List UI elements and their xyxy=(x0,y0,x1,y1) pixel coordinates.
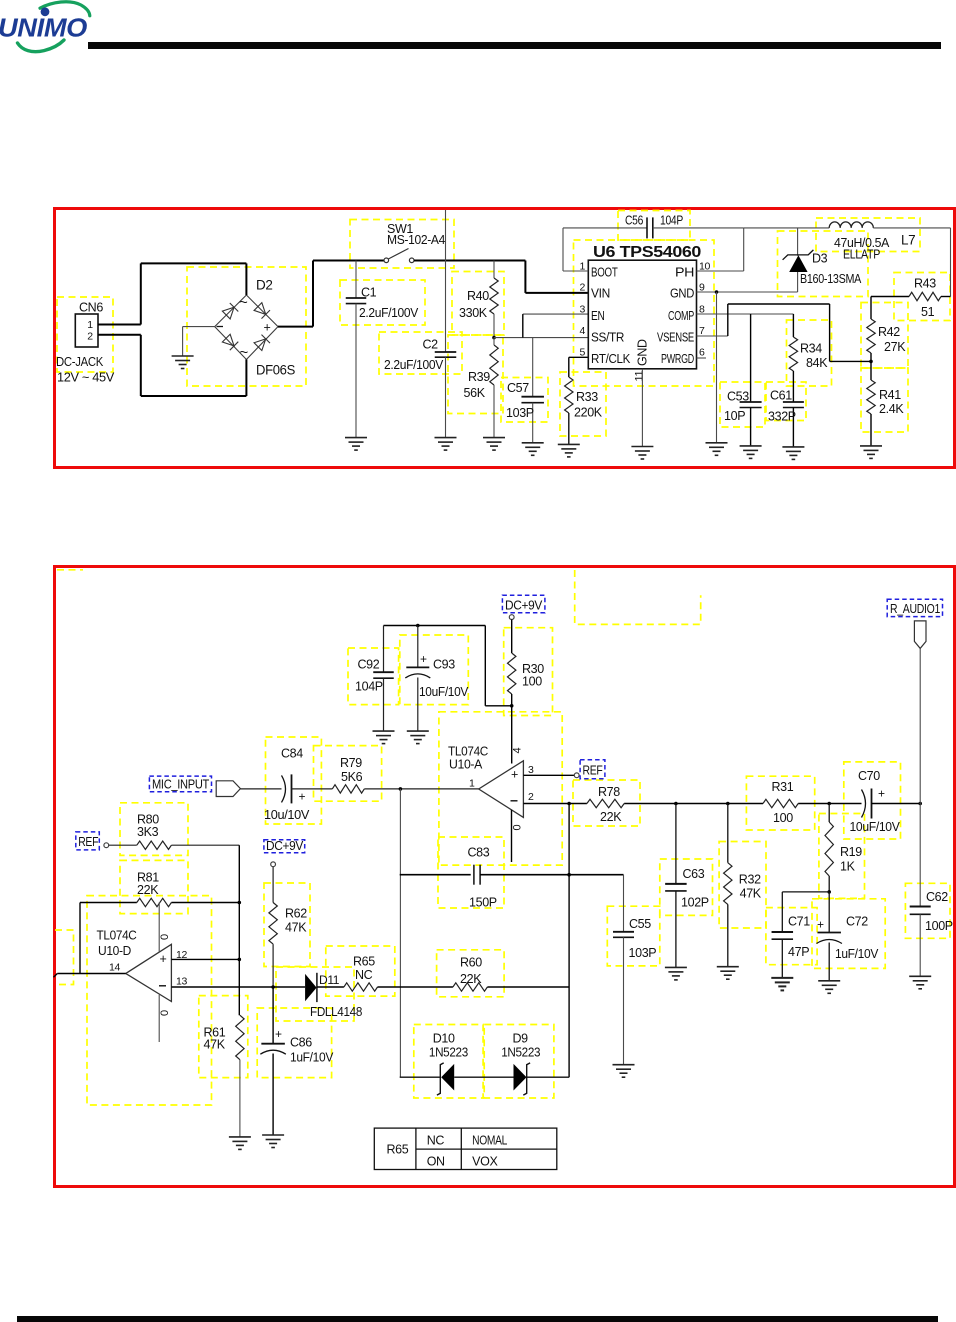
resistor R61 xyxy=(236,1015,244,1059)
svg-text:GND: GND xyxy=(636,339,650,366)
resistor R39 xyxy=(490,345,498,385)
highlight box C92 xyxy=(348,648,399,705)
svg-text:C62: C62 xyxy=(926,890,948,904)
highlight box R81 xyxy=(120,860,188,913)
svg-text:47P: 47P xyxy=(788,945,809,959)
svg-text:COMP: COMP xyxy=(668,309,694,323)
ground R41 xyxy=(860,446,882,459)
capacitor C72 polarized xyxy=(828,892,830,933)
svg-text:C70: C70 xyxy=(858,769,880,783)
wire pin2 node vertical xyxy=(568,804,570,1078)
svg-text:SS/TR: SS/TR xyxy=(591,331,624,345)
svg-text:56K: 56K xyxy=(464,386,486,400)
svg-text:R65: R65 xyxy=(353,955,375,969)
svg-text:TL074C: TL074C xyxy=(448,745,488,759)
wire feedback left leg xyxy=(79,903,81,974)
wire REF to R80 xyxy=(109,844,137,846)
svg-text:+: + xyxy=(299,790,306,804)
resistor R19 xyxy=(828,804,830,823)
svg-text:C83: C83 xyxy=(468,846,490,860)
resistor R32 xyxy=(727,804,729,863)
ground C92 xyxy=(373,731,395,744)
wire COMP pin8 xyxy=(697,313,794,315)
svg-text:TL074C: TL074C xyxy=(97,929,137,943)
resistor R40 xyxy=(493,261,495,279)
svg-text:14: 14 xyxy=(109,962,120,974)
svg-text:R41: R41 xyxy=(879,388,901,402)
svg-text:330K: 330K xyxy=(459,306,488,320)
svg-text:R32: R32 xyxy=(739,873,761,887)
svg-text:DF06S: DF06S xyxy=(256,363,295,378)
svg-text:DC-JACK: DC-JACK xyxy=(56,354,104,369)
wire PH pin10 to bootstrap xyxy=(697,270,744,272)
wire bridge minus lead xyxy=(183,326,215,328)
wire R81 right xyxy=(171,902,239,904)
svg-text:100: 100 xyxy=(522,675,542,689)
junction R81 node xyxy=(238,901,242,905)
wire bridge bottom lead xyxy=(245,360,247,397)
svg-text:47K: 47K xyxy=(740,887,762,901)
op-amp U10-D TL074C xyxy=(126,944,172,1001)
highlight box R41 xyxy=(861,368,908,432)
svg-text:R31: R31 xyxy=(772,780,794,794)
capacitor C55 xyxy=(623,875,625,932)
wire D11 to R65 xyxy=(317,986,344,988)
wire pin13 to D11 xyxy=(171,986,305,988)
capacitor C86 polarized xyxy=(272,987,274,1044)
junction R62 bottom xyxy=(271,985,275,989)
wire rail after switch xyxy=(414,260,525,262)
svg-text:REF: REF xyxy=(583,764,604,778)
ground C57 xyxy=(522,443,544,456)
svg-text:C61: C61 xyxy=(770,389,792,403)
wire bridge top lead xyxy=(245,263,247,295)
wire plus rail to switch xyxy=(312,261,314,327)
partial highlight top-left corner xyxy=(57,569,83,571)
op-amp U10-A TL074C xyxy=(479,761,524,818)
wire EN jog xyxy=(523,313,589,315)
highlight box D3 xyxy=(778,231,869,297)
svg-text:R43: R43 xyxy=(914,277,936,291)
bridge diode top-left xyxy=(222,303,238,319)
svg-text:0: 0 xyxy=(159,934,171,940)
svg-text:+: + xyxy=(420,652,427,666)
resistor R78 xyxy=(587,799,624,807)
svg-text:R62: R62 xyxy=(285,907,307,921)
zener diode D9 1N5223 xyxy=(514,1064,527,1091)
connector CN6 xyxy=(75,314,98,347)
svg-text:102P: 102P xyxy=(681,896,709,910)
svg-text:D10: D10 xyxy=(433,1032,455,1046)
svg-text:PWRGD: PWRGD xyxy=(661,352,694,366)
table R65 options xyxy=(374,1128,557,1169)
svg-text:103P: 103P xyxy=(506,406,534,420)
wire C70 to output node xyxy=(872,803,921,805)
power schematic red frame xyxy=(55,209,955,468)
svg-text:2.4K: 2.4K xyxy=(879,402,904,416)
highlight box C55 xyxy=(607,906,660,966)
svg-text:332P: 332P xyxy=(768,410,796,424)
svg-text:UNIMO: UNIMO xyxy=(0,13,87,43)
highlight box U6 xyxy=(574,240,715,386)
svg-text:R33: R33 xyxy=(576,390,598,404)
svg-text:CN6: CN6 xyxy=(79,301,103,315)
svg-text:C86: C86 xyxy=(290,1036,312,1050)
resistor R30 xyxy=(511,620,513,654)
op IC U6 TPS54060 body xyxy=(588,260,696,369)
ground pin9 xyxy=(706,443,728,456)
svg-text:0: 0 xyxy=(159,1010,171,1016)
svg-text:10uF/10V: 10uF/10V xyxy=(850,820,901,834)
svg-text:+: + xyxy=(275,1027,282,1041)
wire R81 left xyxy=(80,902,137,904)
U10-A pin11 stub xyxy=(511,810,513,862)
junction R79 node xyxy=(399,787,403,791)
svg-text:1uF/10V: 1uF/10V xyxy=(835,947,879,961)
svg-text:+: + xyxy=(878,787,885,801)
net label MIC_INPUT xyxy=(149,776,211,792)
svg-text:R_AUDIO1: R_AUDIO1 xyxy=(890,602,940,616)
svg-text:7: 7 xyxy=(699,325,705,337)
ground C1 xyxy=(345,438,367,451)
highlight box R34 xyxy=(787,320,832,386)
U10-D power stub bottom xyxy=(158,995,160,1042)
svg-text:R42: R42 xyxy=(878,325,900,339)
wire R78 to R31 xyxy=(624,803,763,805)
capacitor C53 xyxy=(750,314,752,402)
svg-text:22K: 22K xyxy=(137,883,159,897)
ground C63 xyxy=(665,967,687,980)
resistor R65 xyxy=(344,983,378,991)
svg-text:3K3: 3K3 xyxy=(137,825,159,839)
highlight box C83 xyxy=(438,837,504,908)
svg-text:2.2uF/100V: 2.2uF/100V xyxy=(359,305,419,320)
svg-text:DC+9V: DC+9V xyxy=(266,839,304,853)
wire PH node to L7 xyxy=(744,227,830,229)
highlight box R78 xyxy=(573,780,640,826)
resistor R80 xyxy=(137,841,172,849)
highlight box R80 xyxy=(120,803,188,856)
svg-text:84K: 84K xyxy=(806,356,828,370)
svg-text:51: 51 xyxy=(921,305,935,319)
ground C62 xyxy=(909,976,931,989)
svg-text:R19: R19 xyxy=(840,845,862,859)
wire PWRGD pin6 stub xyxy=(697,357,707,359)
svg-text:EN: EN xyxy=(591,309,605,323)
svg-text:NC: NC xyxy=(427,1134,445,1148)
highlight box C72 xyxy=(812,899,885,969)
bridge rectifier D2 diamond xyxy=(215,295,278,360)
svg-text:MIC_INPUT: MIC_INPUT xyxy=(152,778,210,792)
svg-text:NOMAL: NOMAL xyxy=(472,1134,507,1148)
partial highlight open box top middle xyxy=(575,570,701,624)
ground R33 xyxy=(558,444,580,457)
wire R79 to op-amp output xyxy=(364,788,478,790)
highlight box CN6 xyxy=(57,297,113,372)
inductor L7 xyxy=(829,222,873,228)
wire RT/CLK to R33 xyxy=(569,356,589,358)
ground C86 xyxy=(262,1135,284,1148)
svg-text:2: 2 xyxy=(87,331,93,343)
svg-text:2: 2 xyxy=(580,282,586,294)
wire divider to SS/TR xyxy=(494,337,588,339)
wire pin12 xyxy=(171,958,239,960)
wire decoupling to caps xyxy=(485,705,511,707)
wire between zeners xyxy=(454,1076,513,1078)
ground C2 xyxy=(435,438,457,451)
resistor R34 xyxy=(792,314,794,337)
highlight box C1 xyxy=(340,280,425,325)
svg-text:10u/10V: 10u/10V xyxy=(264,808,310,822)
svg-text:C92: C92 xyxy=(358,658,380,672)
svg-text:103P: 103P xyxy=(629,946,657,960)
highlight box R60 xyxy=(437,950,505,997)
highlight box D2 xyxy=(187,267,306,386)
capacitor C93 polarized xyxy=(417,626,419,668)
highlight box R19 xyxy=(819,814,865,899)
wire R80 to node xyxy=(171,844,239,846)
zener diode D10 1N5223 xyxy=(437,1063,444,1095)
wire VSENSE pin7 route xyxy=(697,335,728,337)
svg-text:R65: R65 xyxy=(387,1143,409,1157)
wire zener right xyxy=(527,1076,569,1078)
wire R60 right xyxy=(487,986,569,988)
svg-text:100P: 100P xyxy=(925,919,953,933)
wire CN6 pin2 to bottom rail xyxy=(98,334,141,336)
highlight box R31 xyxy=(746,776,814,830)
top header rule xyxy=(88,42,941,49)
resistor R60 xyxy=(453,983,488,991)
svg-text:12V ~ 45V: 12V ~ 45V xyxy=(57,370,115,385)
wire vox clamp left xyxy=(400,1076,441,1078)
wire R_AUDIO1 down xyxy=(919,648,921,803)
svg-text:RT/CLK: RT/CLK xyxy=(591,352,631,366)
connector R_AUDIO1 pin xyxy=(914,621,926,649)
svg-text:C84: C84 xyxy=(281,747,303,761)
svg-text:100: 100 xyxy=(773,811,793,825)
svg-text:1uF/10V: 1uF/10V xyxy=(290,1051,334,1065)
svg-text:U6 TPS54060: U6 TPS54060 xyxy=(593,244,701,261)
svg-text:C1: C1 xyxy=(361,286,377,300)
svg-text:REF: REF xyxy=(78,835,99,849)
highlight box D11 xyxy=(276,967,354,1021)
highlight box R79 xyxy=(314,746,382,802)
bottom footer rule xyxy=(17,1316,938,1322)
svg-text:1: 1 xyxy=(469,778,475,790)
highlight box C53 xyxy=(720,382,765,427)
net label DC+9V top xyxy=(502,595,545,613)
svg-text:D2: D2 xyxy=(256,278,273,293)
highlight box R65 xyxy=(326,946,395,996)
highlight box C62 xyxy=(905,883,950,938)
svg-text:150P: 150P xyxy=(469,896,497,910)
highlight box R62 xyxy=(264,883,310,967)
highlight box R33 xyxy=(560,372,606,436)
svg-text:3: 3 xyxy=(528,764,534,776)
wire pin3 to REF xyxy=(523,774,574,776)
svg-text:D9: D9 xyxy=(513,1032,529,1046)
highlight box C71 xyxy=(766,908,817,965)
ground C72 xyxy=(818,981,840,994)
junction C63 tap xyxy=(674,802,678,806)
svg-text:C57: C57 xyxy=(507,381,529,395)
highlight box U10-A xyxy=(439,712,562,865)
capacitor C1 xyxy=(355,261,357,299)
resistor R79 xyxy=(332,785,364,793)
diode D11 FDLL4148 xyxy=(305,974,317,1001)
svg-text:C55: C55 xyxy=(629,917,651,931)
capacitor C71 xyxy=(781,892,783,932)
highlight box C56 xyxy=(618,211,690,241)
svg-text:+: + xyxy=(160,952,167,966)
highlight box C70 xyxy=(844,762,901,839)
net label DC+9V mid xyxy=(264,840,305,853)
junction GND pin9 xyxy=(715,290,719,294)
highlight box C61 xyxy=(766,382,806,421)
node EN/SS divider junction xyxy=(492,336,496,340)
junction VSENSE divider xyxy=(869,360,873,364)
ground R39 xyxy=(483,438,505,451)
svg-text:+: + xyxy=(511,768,518,782)
svg-text:R40: R40 xyxy=(467,289,489,303)
highlight box C63 xyxy=(660,859,713,915)
wire C83 left xyxy=(400,874,471,876)
svg-text:C2: C2 xyxy=(423,338,439,352)
svg-text:2: 2 xyxy=(528,791,534,803)
svg-text:NC: NC xyxy=(355,968,373,982)
svg-text:22K: 22K xyxy=(460,972,482,986)
svg-text:ELLATP: ELLATP xyxy=(843,248,880,262)
UNIMO logo xyxy=(0,0,110,62)
wire VIN drop xyxy=(524,261,526,293)
capacitor C57 xyxy=(532,338,534,397)
wire R19 to C71 xyxy=(782,891,829,893)
ground C53 xyxy=(740,446,762,459)
svg-text:C53: C53 xyxy=(727,390,749,404)
svg-text:R34: R34 xyxy=(800,342,822,356)
highlight box U10-D xyxy=(87,896,212,1105)
svg-text:B160-13SMA: B160-13SMA xyxy=(800,272,862,286)
svg-text:+: + xyxy=(817,918,824,932)
svg-text:104P: 104P xyxy=(660,214,683,228)
capacitor C84 polarized xyxy=(282,775,286,802)
svg-text:D11: D11 xyxy=(319,973,340,987)
svg-text:C71: C71 xyxy=(788,915,810,929)
svg-text:~: ~ xyxy=(239,294,248,311)
wire vertical from mic node down xyxy=(399,789,401,1077)
junction pin12 node xyxy=(238,958,242,962)
highlight box R40 xyxy=(452,272,504,336)
svg-text:47K: 47K xyxy=(204,1038,226,1052)
capacitor C61 xyxy=(783,401,804,403)
svg-text:22K: 22K xyxy=(600,810,622,824)
highlight box C2 xyxy=(379,332,462,374)
ground pin11 xyxy=(631,447,653,460)
svg-text:11: 11 xyxy=(634,371,646,382)
highlight box C57 xyxy=(501,378,548,423)
wire stub above rail at C2 xyxy=(445,210,447,261)
svg-text:6: 6 xyxy=(699,347,705,359)
resistor R62 xyxy=(272,867,274,903)
junction R19 bottom xyxy=(827,890,831,894)
wire pin2 xyxy=(523,803,587,805)
svg-text:R39: R39 xyxy=(468,370,490,384)
U10-A pin4 power stub xyxy=(511,706,513,764)
capacitor C63 xyxy=(675,804,677,884)
capacitor C83 xyxy=(473,865,475,885)
svg-text:D3: D3 xyxy=(812,252,828,266)
ground R61 xyxy=(229,1137,251,1150)
highlight box R39 xyxy=(448,335,503,414)
svg-text:VIN: VIN xyxy=(591,287,610,301)
svg-text:~: ~ xyxy=(240,344,249,361)
partial highlight left edge box xyxy=(55,930,74,985)
highlight box C86 xyxy=(257,1008,331,1078)
junction R19 tap xyxy=(827,802,831,806)
wire node vertical R80/R81/pin12 xyxy=(238,845,240,1015)
highlight box D10 xyxy=(414,1025,483,1099)
svg-text:L7: L7 xyxy=(901,233,915,248)
svg-text:13: 13 xyxy=(176,976,187,988)
svg-text:2.2uF/100V: 2.2uF/100V xyxy=(384,357,444,372)
ground at bridge minus xyxy=(182,327,184,356)
capacitor C56 xyxy=(563,227,647,229)
resistor R81 xyxy=(137,898,172,906)
svg-text:27K: 27K xyxy=(884,340,906,354)
svg-text:R78: R78 xyxy=(598,785,620,799)
wire C84 to R79 xyxy=(292,788,333,790)
junction pin2 node xyxy=(567,802,571,806)
highlight box C84 xyxy=(266,737,322,824)
svg-text:R79: R79 xyxy=(340,756,362,770)
net label REF right xyxy=(580,760,605,779)
svg-text:PH: PH xyxy=(675,266,694,280)
audio schematic red frame xyxy=(55,567,955,1187)
bridge diode bottom-right xyxy=(254,335,270,351)
svg-text:C72: C72 xyxy=(846,915,868,929)
wire MIC to C84 xyxy=(240,788,281,790)
highlight box R42 xyxy=(861,303,908,369)
wire output node right edge xyxy=(950,228,952,297)
svg-text:DC+9V: DC+9V xyxy=(505,599,543,613)
highlight box R30 xyxy=(504,628,553,716)
svg-text:1N5223: 1N5223 xyxy=(429,1046,468,1060)
svg-text:U10-D: U10-D xyxy=(98,944,131,958)
svg-text:BOOT: BOOT xyxy=(591,266,618,280)
wire GND pin9 xyxy=(697,291,798,293)
wire CN6 pin1 to top rail xyxy=(98,324,141,326)
svg-text:4: 4 xyxy=(512,748,524,754)
svg-text:GND: GND xyxy=(670,287,694,301)
svg-text:220K: 220K xyxy=(574,406,603,420)
svg-text:1K: 1K xyxy=(840,860,856,874)
svg-text:1: 1 xyxy=(87,319,93,331)
highlight box R32 xyxy=(719,842,766,929)
ground C93 xyxy=(407,731,429,744)
capacitor C2 xyxy=(445,261,447,353)
connector MIC input pin xyxy=(216,781,240,797)
svg-text:1N5223: 1N5223 xyxy=(501,1046,540,1060)
svg-text:VOX: VOX xyxy=(472,1155,498,1169)
svg-text:C63: C63 xyxy=(683,867,705,881)
junction R30 bottom xyxy=(510,704,514,708)
wire C83 right xyxy=(480,874,623,876)
svg-text:+: + xyxy=(264,321,271,335)
ground C71 xyxy=(771,978,793,991)
svg-text:MS-102-A4: MS-102-A4 xyxy=(387,233,445,247)
svg-text:5: 5 xyxy=(580,347,586,359)
svg-text:10uF/10V: 10uF/10V xyxy=(419,685,469,699)
